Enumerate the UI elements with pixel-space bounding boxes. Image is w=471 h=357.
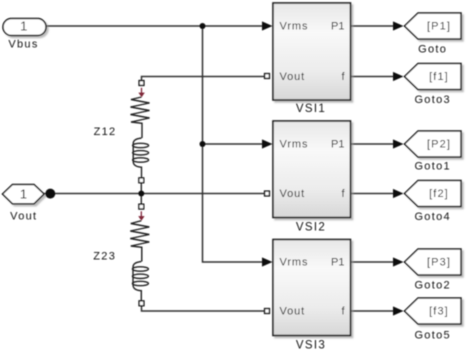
port square Z12 top xyxy=(139,81,144,86)
node dot at Vout port xyxy=(45,189,55,199)
wire VSI2 f to Goto4 xyxy=(351,193,395,195)
svg-text:Goto5: Goto5 xyxy=(414,330,450,342)
impedance Z12 xyxy=(131,81,150,183)
svg-text:Z23: Z23 xyxy=(93,250,116,262)
current arrow Z12 (red) xyxy=(138,88,144,97)
wire VSI1 P1 to Goto xyxy=(351,25,395,27)
arrowhead into Goto [P1] xyxy=(393,21,404,30)
svg-text:Vbus: Vbus xyxy=(8,39,38,51)
impedance Z23 xyxy=(130,204,149,305)
svg-text:Z12: Z12 xyxy=(94,126,117,138)
resistor Z12 xyxy=(131,97,150,138)
subsystem VSI2 xyxy=(273,121,351,218)
svg-text:Vrms: Vrms xyxy=(280,257,309,269)
inductor Z12 xyxy=(133,138,141,178)
port square Z12 bottom xyxy=(139,178,144,183)
wire Vout net to Z23 top xyxy=(140,194,142,204)
wire Z23 bottom to VSI3 Vout xyxy=(142,306,265,311)
subsystem VSI1 xyxy=(273,3,351,100)
svg-text:VSI3: VSI3 xyxy=(296,340,326,352)
arrowhead into Goto4 [f2] xyxy=(393,189,404,198)
wire vertical Vbus bus line down to VSI3 Vrms xyxy=(203,26,264,262)
svg-text:P1: P1 xyxy=(331,257,344,269)
wire VSI3 P1 to Goto2 xyxy=(351,261,395,263)
wire VSI2 P1 to Goto1 xyxy=(351,143,395,145)
svg-text:[f2]: [f2] xyxy=(429,188,449,200)
port square Z23 bottom xyxy=(139,301,144,306)
current arrow Z23 (red) xyxy=(138,211,144,220)
wire Z12 top to VSI1 Vout xyxy=(142,77,265,81)
svg-text:Vrms: Vrms xyxy=(280,21,309,33)
svg-text:Vout: Vout xyxy=(280,306,306,318)
arrowhead into Goto1 [P2] xyxy=(393,139,404,148)
wire VSI3 f to Goto5 xyxy=(351,310,395,312)
svg-text:Goto1: Goto1 xyxy=(414,161,450,173)
inductor Z23 xyxy=(133,262,141,302)
svg-text:VSI2: VSI2 xyxy=(296,222,326,234)
resistor Z23 xyxy=(130,221,149,262)
subsystem VSI3 xyxy=(273,240,351,336)
svg-text:[f3]: [f3] xyxy=(429,306,449,318)
goto block [f1] xyxy=(405,64,462,107)
svg-text:Vout: Vout xyxy=(280,71,306,83)
connection port Vout (hexagon port 1) xyxy=(3,185,45,223)
arrowhead into VSI1 Vrms xyxy=(262,21,273,30)
svg-text:1: 1 xyxy=(20,18,27,33)
goto block [f2] xyxy=(405,181,462,223)
arrowhead into VSI2 Vrms xyxy=(262,139,273,148)
wire VSI1 f to Goto3 xyxy=(351,76,395,78)
svg-text:Goto4: Goto4 xyxy=(414,211,450,223)
inport Vbus (oval port 1) xyxy=(3,18,46,50)
svg-text:Goto2: Goto2 xyxy=(414,280,450,292)
svg-text:[f1]: [f1] xyxy=(429,71,449,83)
wire branch to VSI2 Vrms xyxy=(203,143,264,145)
goto block [P2] xyxy=(405,131,462,173)
node junction on Vbus wire xyxy=(200,23,206,29)
svg-text:P1: P1 xyxy=(331,139,344,151)
wire Vbus horizontal to VSI1 Vrms xyxy=(46,25,263,27)
svg-text:[P3]: [P3] xyxy=(427,257,451,269)
node junction Vbus to VSI2 xyxy=(200,141,206,147)
wire Vout net horizontal xyxy=(44,193,264,195)
svg-text:VSI1: VSI1 xyxy=(296,103,326,115)
port square VSI1 Vout input xyxy=(265,74,270,79)
wire Z12 bottom to Vout net xyxy=(140,183,142,194)
svg-text:Vrms: Vrms xyxy=(280,139,309,151)
node junction Vout net at Z12/Z23 xyxy=(138,191,144,197)
svg-text:[P1]: [P1] xyxy=(427,21,451,33)
svg-text:Goto: Goto xyxy=(418,44,447,56)
svg-text:1: 1 xyxy=(20,187,27,202)
svg-text:P1: P1 xyxy=(331,21,344,33)
arrowhead into Goto2 [P3] xyxy=(393,257,404,266)
arrowhead into VSI3 Vrms xyxy=(262,257,273,266)
port square Z23 top xyxy=(139,204,144,209)
port square VSI2 Vout input xyxy=(265,191,270,196)
arrowhead into Goto3 [f1] xyxy=(393,72,404,81)
svg-text:Vout: Vout xyxy=(280,188,306,200)
svg-text:Goto3: Goto3 xyxy=(414,94,450,106)
goto block [f3] xyxy=(405,298,462,342)
arrowhead into Goto5 [f3] xyxy=(393,306,404,315)
goto block [P3] xyxy=(405,249,462,292)
svg-text:Vout: Vout xyxy=(10,211,37,223)
port square VSI3 Vout input xyxy=(265,309,270,314)
goto block [P1] xyxy=(405,13,462,56)
svg-text:[P2]: [P2] xyxy=(427,139,451,151)
